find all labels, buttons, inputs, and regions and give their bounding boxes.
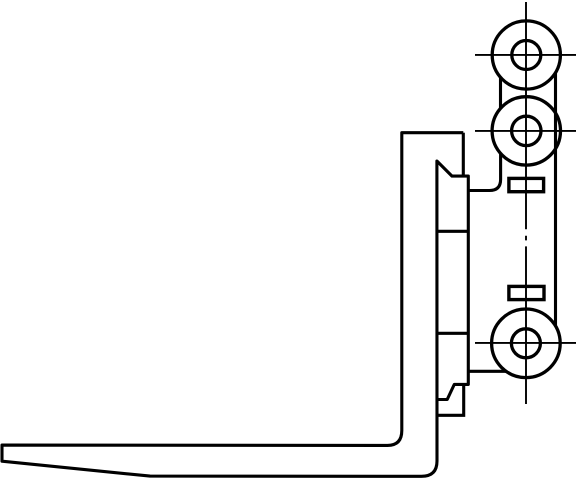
strap between roller R1 and R2 [499,77,502,108]
roller R3 hub [511,329,540,358]
right frame edge line [554,73,557,326]
horizontal centerline of roller R2 [475,130,576,132]
carriage plate division line lower [437,332,468,335]
carriage plate division line upper [437,230,468,233]
roller R1 outer [492,21,560,89]
roller R3 outer [492,309,561,378]
latch block upper [509,178,544,191]
fork outline (head, shank, blade, upper hook, carriage plate right edge) [2,133,468,477]
latch block lower [509,286,544,299]
roller R2 outer [492,97,560,165]
horizontal centerline of roller R3 [475,342,576,344]
vertical centerline (dash-dot) [525,2,527,404]
roller R1 hub [512,41,541,70]
horizontal centerline of roller R1 [475,54,576,56]
fork head right edge [462,133,465,176]
connector from plate to roller R2 [468,154,500,191]
roller R2 hub [512,116,541,145]
lower hook outer step and plate bottom [437,384,464,415]
bracket bottom edge to roller R3 [468,370,506,373]
